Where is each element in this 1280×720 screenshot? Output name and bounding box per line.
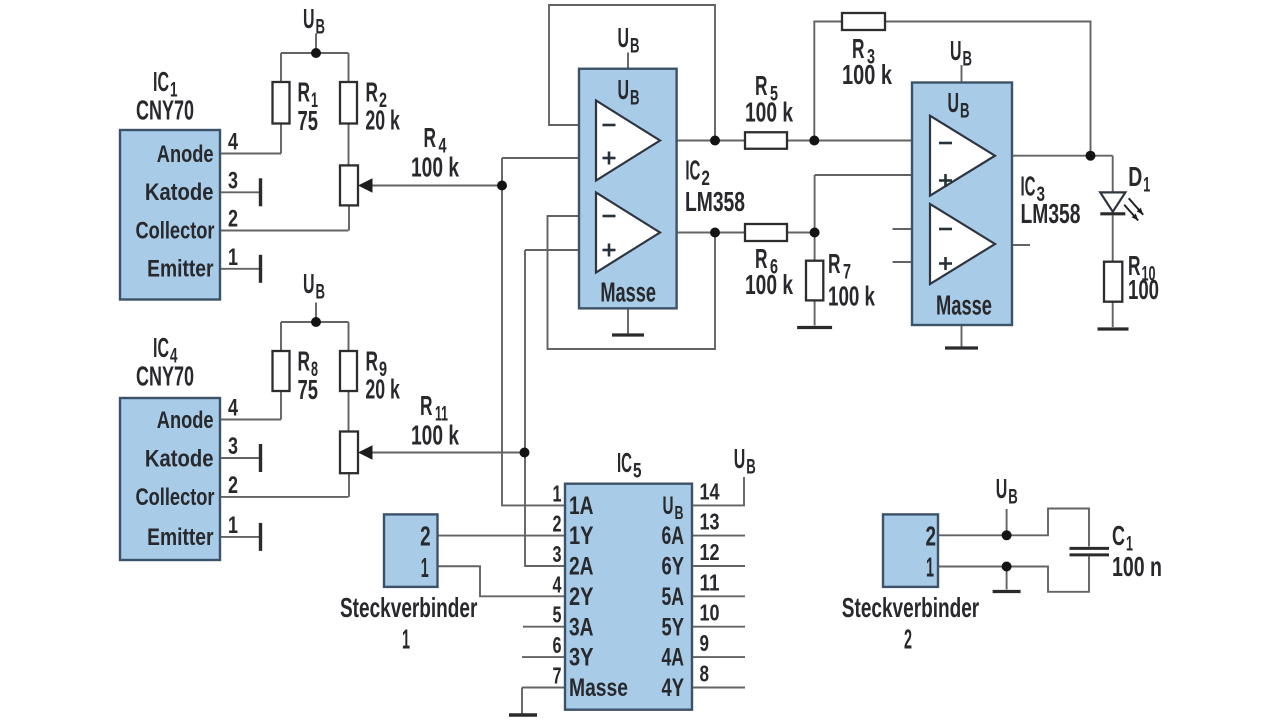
svg-text:U: U <box>618 22 630 53</box>
svg-text:U: U <box>734 443 746 474</box>
svg-text:U: U <box>948 87 960 118</box>
svg-text:R: R <box>366 346 379 377</box>
svg-text:3Y: 3Y <box>569 644 594 672</box>
svg-text:4Y: 4Y <box>662 674 685 702</box>
svg-text:1: 1 <box>553 480 562 506</box>
svg-text:Collector: Collector <box>136 217 215 244</box>
svg-text:Collector: Collector <box>136 484 215 511</box>
svg-text:5A: 5A <box>662 583 685 611</box>
svg-text:1Y: 1Y <box>569 522 594 550</box>
svg-text:Masse: Masse <box>936 290 992 321</box>
svg-text:U: U <box>950 35 962 66</box>
svg-text:4: 4 <box>228 395 238 422</box>
svg-text:100: 100 <box>1128 274 1159 305</box>
svg-text:9: 9 <box>700 630 710 656</box>
svg-text:2Y: 2Y <box>569 583 594 611</box>
svg-text:2A: 2A <box>569 553 594 581</box>
svg-text:6A: 6A <box>662 522 685 550</box>
svg-text:100 k: 100 k <box>745 97 793 128</box>
svg-text:Masse: Masse <box>600 277 656 308</box>
svg-text:C: C <box>1112 520 1125 551</box>
svg-text:2: 2 <box>228 206 238 233</box>
svg-text:100 k: 100 k <box>745 269 793 300</box>
svg-text:13: 13 <box>700 509 720 535</box>
svg-text:100 n: 100 n <box>1112 551 1162 582</box>
svg-text:R: R <box>298 346 311 377</box>
svg-text:3: 3 <box>553 541 562 567</box>
svg-text:B: B <box>316 16 326 39</box>
svg-text:Emitter: Emitter <box>147 524 213 551</box>
svg-text:IC: IC <box>617 447 632 478</box>
svg-text:IC: IC <box>685 154 700 185</box>
svg-text:Katode: Katode <box>145 445 214 472</box>
svg-text:R: R <box>828 248 841 279</box>
svg-text:6Y: 6Y <box>662 553 685 581</box>
svg-text:100 k: 100 k <box>411 420 459 451</box>
svg-text:20 k: 20 k <box>365 373 400 404</box>
svg-text:B: B <box>963 48 973 71</box>
svg-text:Masse: Masse <box>569 674 628 702</box>
svg-text:11: 11 <box>700 569 720 595</box>
svg-text:1: 1 <box>228 244 238 271</box>
svg-text:5: 5 <box>553 602 562 628</box>
svg-text:3: 3 <box>228 167 238 194</box>
svg-text:U: U <box>618 74 630 105</box>
svg-text:75: 75 <box>298 374 319 405</box>
svg-text:Anode: Anode <box>157 407 214 434</box>
svg-text:5: 5 <box>633 460 642 483</box>
svg-text:CNY70: CNY70 <box>136 361 194 392</box>
svg-text:R: R <box>366 77 379 108</box>
svg-text:100 k: 100 k <box>842 59 892 90</box>
svg-text:Steckverbinder: Steckverbinder <box>340 592 477 623</box>
svg-text:1: 1 <box>926 552 934 583</box>
svg-text:1: 1 <box>1143 174 1150 197</box>
svg-text:B: B <box>960 100 970 123</box>
svg-text:B: B <box>630 87 640 110</box>
svg-text:IC: IC <box>1021 171 1036 202</box>
svg-text:100 k: 100 k <box>411 152 459 183</box>
svg-text:R: R <box>298 77 311 108</box>
svg-text:3A: 3A <box>569 613 594 641</box>
svg-text:7: 7 <box>553 663 562 689</box>
svg-text:U: U <box>303 268 315 299</box>
svg-text:1: 1 <box>228 512 238 539</box>
svg-text:1: 1 <box>402 623 410 654</box>
svg-text:2: 2 <box>420 521 431 552</box>
svg-text:20 k: 20 k <box>365 104 400 135</box>
svg-text:CNY70: CNY70 <box>136 95 194 126</box>
svg-text:2: 2 <box>228 472 238 499</box>
svg-text:4: 4 <box>553 571 562 597</box>
svg-text:2: 2 <box>904 623 912 654</box>
svg-text:D: D <box>1128 161 1142 192</box>
svg-text:2: 2 <box>553 511 562 537</box>
svg-text:U: U <box>996 473 1008 504</box>
svg-text:1A: 1A <box>569 492 594 520</box>
svg-text:U: U <box>663 492 674 520</box>
svg-text:R: R <box>424 122 437 153</box>
svg-text:U: U <box>303 3 315 34</box>
svg-text:3: 3 <box>228 433 238 460</box>
svg-text:B: B <box>746 456 756 479</box>
svg-text:B: B <box>630 35 640 58</box>
svg-text:12: 12 <box>700 539 720 565</box>
svg-text:75: 75 <box>298 105 319 136</box>
svg-text:LM358: LM358 <box>685 186 745 217</box>
svg-text:B: B <box>675 503 684 523</box>
svg-text:IC: IC <box>153 66 169 97</box>
svg-text:10: 10 <box>700 600 720 626</box>
svg-text:LM358: LM358 <box>1021 198 1081 229</box>
svg-text:14: 14 <box>700 478 720 504</box>
svg-text:B: B <box>316 281 326 304</box>
svg-text:2: 2 <box>926 520 937 551</box>
svg-text:Anode: Anode <box>157 141 214 168</box>
svg-text:5Y: 5Y <box>662 613 685 641</box>
svg-text:Katode: Katode <box>145 179 214 206</box>
svg-text:B: B <box>1008 486 1018 509</box>
svg-text:100 k: 100 k <box>828 281 875 312</box>
svg-text:R: R <box>420 390 433 421</box>
svg-text:Steckverbinder: Steckverbinder <box>842 592 979 623</box>
svg-text:8: 8 <box>700 661 710 687</box>
svg-text:6: 6 <box>553 632 562 658</box>
svg-text:4A: 4A <box>662 644 685 672</box>
svg-text:IC: IC <box>153 332 169 363</box>
svg-text:Emitter: Emitter <box>147 256 213 283</box>
svg-text:4: 4 <box>228 129 238 156</box>
svg-text:1: 1 <box>421 552 429 583</box>
